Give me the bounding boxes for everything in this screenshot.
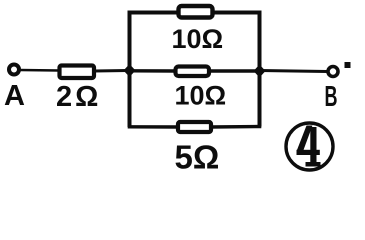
resistor R3 10ohm middle <box>176 67 210 77</box>
resistor R2 10ohm top <box>179 6 213 18</box>
wire middle left <box>130 69 176 73</box>
svg-text:10Ω: 10Ω <box>175 81 227 111</box>
problem number circle 4 <box>286 123 333 170</box>
wire node2 to B <box>260 71 327 72</box>
svg-text:B: B <box>325 81 338 113</box>
wire right vertical <box>258 12 262 127</box>
wire R1 to node1 <box>94 69 129 73</box>
wire middle right <box>209 69 259 72</box>
dot mark right of B <box>345 62 351 68</box>
terminal A <box>9 65 19 75</box>
digit 4 <box>297 126 321 167</box>
wire bottom left <box>128 125 179 129</box>
terminal B <box>328 67 338 77</box>
svg-text:10Ω: 10Ω <box>172 24 224 54</box>
wire top left <box>128 11 179 15</box>
svg-text:5Ω: 5Ω <box>175 139 220 176</box>
node 2 junction <box>254 65 266 78</box>
wire left vertical <box>128 12 132 127</box>
svg-text:A: A <box>4 80 25 112</box>
resistor R1 2ohm <box>60 66 95 79</box>
wire top right <box>212 11 262 15</box>
resistor R4 5ohm bottom <box>178 122 211 132</box>
wire bottom right <box>210 125 261 129</box>
svg-text:2Ω: 2Ω <box>56 81 101 113</box>
node 1 junction <box>124 64 136 77</box>
wire A to R1 <box>20 69 60 72</box>
